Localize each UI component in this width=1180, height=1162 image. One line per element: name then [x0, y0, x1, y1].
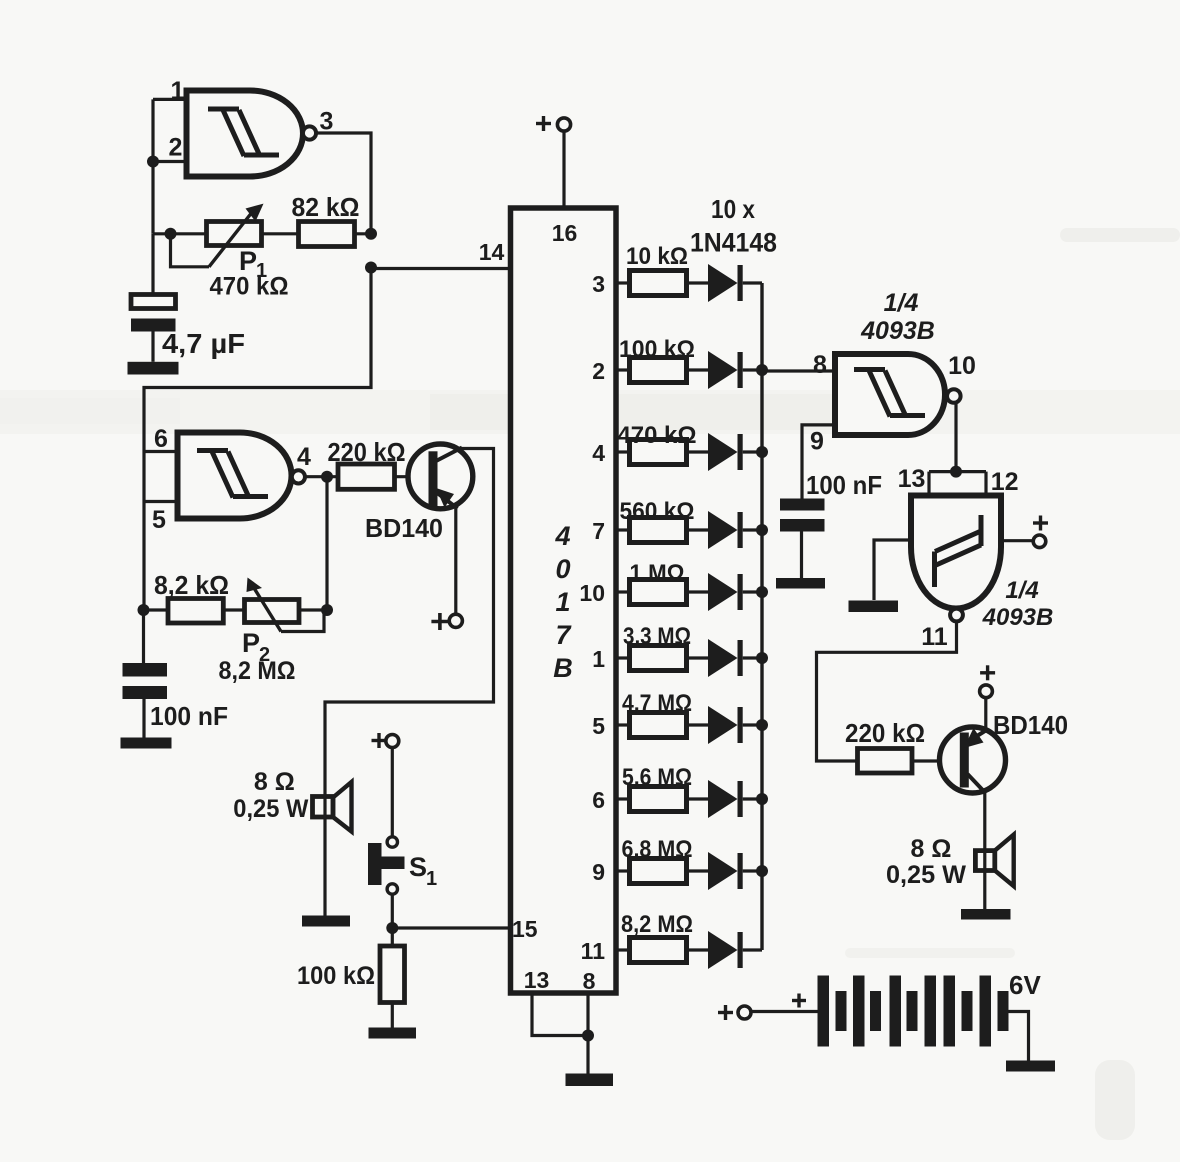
- wire diode-bus row 6: [743, 797, 762, 800]
- diode D3 1N4148: [708, 433, 743, 471]
- pin label 14: [479, 239, 505, 265]
- label + Q2: [980, 665, 995, 680]
- diode D9 1N4148: [708, 852, 743, 890]
- wire diode-bus row 9: [743, 869, 762, 872]
- label + Q1: [431, 613, 448, 630]
- svg-text:4093B: 4093B: [982, 604, 1054, 631]
- label 0,25 W right: [886, 861, 966, 889]
- diode D1 1N4148: [708, 264, 743, 302]
- wire IC pin 7 row: [616, 528, 630, 531]
- label 10 x: [711, 194, 755, 224]
- svg-text:5: 5: [592, 713, 605, 739]
- svg-text:13: 13: [524, 967, 550, 993]
- wire gate4 left input: [874, 540, 911, 600]
- capacitor C3 100nF plate1: [780, 499, 825, 511]
- label 470 k&#937;: [618, 422, 697, 449]
- Q2 base bar: [960, 733, 969, 788]
- wire Q2 collector to LS2: [983, 793, 986, 910]
- label 220 kΩ left: [328, 437, 406, 467]
- NAND gate U1A body: [187, 91, 303, 177]
- wire diode-bus row 10: [743, 590, 762, 593]
- svg-text:S: S: [409, 852, 427, 882]
- resistor row 3 10 k&#937; body: [630, 271, 687, 296]
- wire pin 1: [153, 98, 188, 101]
- svg-text:4: 4: [554, 521, 570, 551]
- wire pin4 node down: [325, 477, 328, 610]
- ground C1: [128, 362, 179, 375]
- label + battery: [792, 994, 806, 1008]
- svg-text:8,2 kΩ: 8,2 kΩ: [154, 570, 229, 600]
- svg-text:3: 3: [320, 108, 334, 136]
- wire P2 wiper: [281, 610, 324, 632]
- resistor row 9 6,8 M&#937; body: [630, 859, 687, 884]
- svg-text:8,2 MΩ: 8,2 MΩ: [621, 911, 693, 938]
- scan artifact band (ghost print): [0, 390, 1180, 434]
- pin label 10: [579, 580, 605, 606]
- capacitor C3 100nF plate2: [780, 519, 825, 532]
- capacitor C1 4,7uF plate-: [131, 319, 176, 332]
- terminal +V S1: [386, 735, 399, 748]
- scan smudge above battery: [845, 948, 1015, 958]
- pin label 12: [991, 468, 1019, 496]
- diode D10 1N4148: [708, 931, 743, 969]
- speaker LS2 horn: [995, 835, 1014, 887]
- wire resistor-diode row 9: [687, 869, 709, 872]
- wire LS1 to ground: [323, 797, 326, 917]
- wire P1 to R1: [262, 232, 300, 235]
- svg-text:15: 15: [512, 916, 538, 942]
- wire battery - to ground: [1009, 1012, 1029, 1061]
- wire IC pin 9 row: [616, 869, 630, 872]
- svg-text:5: 5: [152, 506, 166, 534]
- wire to IC pin 14: [371, 267, 510, 270]
- label 8 Ω right: [911, 835, 952, 863]
- svg-text:0: 0: [555, 554, 570, 584]
- svg-text:11: 11: [921, 623, 948, 651]
- wire IC pin 2 row: [616, 368, 630, 371]
- wire Q2 emitter to +V: [984, 698, 987, 730]
- wire U1C out to gate4: [954, 402, 957, 472]
- wire Q1 collector to net: [325, 449, 494, 797]
- svg-text:220 kΩ: 220 kΩ: [845, 718, 925, 748]
- svg-text:220 kΩ: 220 kΩ: [328, 437, 406, 467]
- node osc1 output: [365, 262, 377, 274]
- wire node to R2: [144, 608, 169, 611]
- Q2 emitter arrow: [964, 728, 984, 748]
- U1C output bubble: [947, 389, 961, 403]
- wire diode-bus row 2: [743, 368, 762, 371]
- U1B output bubble: [292, 470, 305, 483]
- svg-text:8,2 MΩ: 8,2 MΩ: [219, 657, 296, 685]
- node bus y452: [756, 446, 768, 458]
- wire R1 to node: [354, 232, 372, 235]
- label BD140 left: [365, 513, 443, 543]
- label 1N4148: [690, 228, 777, 258]
- svg-text:1/4: 1/4: [884, 289, 919, 317]
- pin label 10: [948, 352, 976, 380]
- svg-text:16: 16: [552, 220, 578, 246]
- wire gate4 right to +V: [1001, 539, 1033, 542]
- svg-text:B: B: [553, 653, 573, 683]
- scan smudge right edge: [1060, 228, 1180, 1140]
- pin label 6: [154, 425, 168, 453]
- wire P2 to node: [299, 608, 327, 611]
- pin label 5: [592, 713, 605, 739]
- Q1 base bar: [429, 451, 438, 506]
- wire IC pin 16: [562, 131, 565, 208]
- wire IC pin 6 row: [616, 797, 630, 800]
- svg-text:3,3 MΩ: 3,3 MΩ: [623, 623, 691, 650]
- svg-text:5,6 MΩ: 5,6 MΩ: [622, 764, 692, 791]
- wire diode-bus row 4: [743, 450, 762, 453]
- wire gate4 input tie: [929, 470, 986, 473]
- U1D schmitt symbol: [935, 515, 982, 587]
- svg-text:8 Ω: 8 Ω: [911, 835, 952, 863]
- svg-text:470 kΩ: 470 kΩ: [210, 273, 289, 301]
- label 8,2 kΩ: [154, 570, 229, 600]
- svg-text:8: 8: [813, 351, 827, 379]
- wire gate4 out to R5: [817, 621, 957, 761]
- svg-text:BD140: BD140: [365, 513, 443, 543]
- wire IC pin 3 row: [616, 281, 630, 284]
- wire resistor-diode row 6: [687, 797, 709, 800]
- switch S1 contact bottom: [387, 884, 397, 894]
- U1A schmitt symbol: [208, 109, 279, 156]
- svg-text:8: 8: [583, 968, 596, 994]
- node bus y799: [756, 793, 768, 805]
- node bus y530: [756, 524, 768, 536]
- NAND gate U1C body: [835, 354, 945, 435]
- wire pin 2: [153, 160, 188, 163]
- label P1: [239, 246, 267, 282]
- wire resistor-diode row 11: [687, 948, 709, 951]
- label P2: [242, 628, 270, 666]
- wire resistor-diode row 3: [687, 281, 709, 284]
- wire IC pin 1 row: [616, 656, 630, 659]
- label S1: [409, 852, 437, 890]
- wire IC pin 13: [532, 993, 588, 1036]
- capacitor C2 100nF plate1: [123, 663, 168, 677]
- terminal +V Q1: [449, 614, 462, 627]
- resistor row 11 8,2 M&#937; body: [630, 938, 687, 963]
- Q1 collector: [436, 448, 462, 462]
- wire battery +: [751, 1010, 818, 1013]
- pin label 11: [581, 938, 606, 964]
- svg-text:7: 7: [592, 518, 605, 544]
- wire P1 wiper: [171, 234, 210, 267]
- pin label 4: [297, 443, 311, 471]
- node bus y592: [756, 586, 768, 598]
- terminal +V IC: [557, 118, 570, 131]
- P1 wiper arrow: [209, 204, 264, 267]
- transistor Q2 BD140 circle: [940, 727, 1006, 793]
- node bus y871: [756, 865, 768, 877]
- label 100 kΩ bottom: [297, 962, 375, 990]
- wire U1B output pin 4: [305, 475, 338, 478]
- svg-text:4,7 MΩ: 4,7 MΩ: [622, 690, 692, 717]
- wire diode-bus row 5: [743, 723, 762, 726]
- pin label 3: [320, 108, 334, 136]
- wire diode-bus row 7: [743, 528, 762, 531]
- terminal +V Q2: [980, 685, 993, 698]
- svg-text:82 kΩ: 82 kΩ: [292, 192, 360, 222]
- wire IC pin 4 row: [616, 450, 630, 453]
- svg-text:2: 2: [169, 134, 183, 162]
- label 1/4 top: [884, 289, 919, 317]
- speaker LS1 box: [313, 797, 334, 818]
- diode D2 1N4148: [708, 351, 743, 389]
- U1A output bubble: [303, 126, 316, 139]
- node osc2 RC: [138, 604, 150, 616]
- label 8,2 MΩ: [219, 657, 296, 685]
- node P2 right: [321, 604, 333, 616]
- svg-text:100 nF: 100 nF: [806, 470, 882, 500]
- pin label 9: [810, 428, 824, 456]
- node gate4 input: [950, 466, 962, 478]
- svg-text:8 Ω: 8 Ω: [254, 768, 295, 796]
- IC name 4017B: [553, 521, 573, 683]
- Q1 emitter arrow: [436, 488, 454, 508]
- svg-text:7: 7: [555, 620, 572, 650]
- node IC ground: [582, 1030, 594, 1042]
- wire pin 9: [802, 425, 836, 499]
- resistor R2 8,2k body: [168, 599, 223, 624]
- wire IC pin 8: [586, 993, 589, 1074]
- speaker LS2 box: [975, 851, 994, 871]
- Q1 emitter: [436, 492, 458, 509]
- svg-text:1 MΩ: 1 MΩ: [630, 560, 685, 587]
- diode D4 1N4148: [708, 511, 743, 549]
- wire resistor-diode row 4: [687, 450, 709, 453]
- svg-text:0,25 W: 0,25 W: [233, 795, 308, 823]
- svg-text:1/4: 1/4: [1005, 577, 1038, 604]
- wire resistor-diode row 1: [687, 656, 709, 659]
- label 1/4 bottom: [1005, 577, 1038, 604]
- terminal + battery: [738, 1006, 751, 1019]
- svg-text:4: 4: [297, 443, 311, 471]
- resistor row 10 1 M&#937; body: [630, 580, 687, 605]
- diode D8 1N4148: [708, 780, 743, 818]
- svg-text:10: 10: [579, 580, 605, 606]
- capacitor C2 100nF plate2: [123, 686, 168, 699]
- wire bus to pin 8: [762, 369, 836, 372]
- svg-text:1: 1: [171, 77, 185, 105]
- label 100 nF left: [150, 701, 228, 731]
- svg-text:P: P: [242, 628, 260, 658]
- wire diode-bus row 3: [743, 281, 762, 284]
- wire pin 12 stub: [984, 472, 987, 496]
- wire LS2 to ground: [0, 0, 1, 1]
- svg-text:100 kΩ: 100 kΩ: [297, 962, 375, 990]
- wire S1 top: [391, 748, 394, 838]
- resistor row 4 470 k&#937; body: [630, 440, 687, 465]
- ground gate4 input: [849, 601, 899, 613]
- wire node to C1: [151, 234, 154, 295]
- ground R4: [369, 1028, 417, 1039]
- svg-text:100 nF: 100 nF: [150, 701, 228, 731]
- svg-text:6V: 6V: [1009, 970, 1041, 1000]
- node feedback top: [365, 228, 377, 240]
- svg-text:1: 1: [592, 646, 605, 672]
- svg-text:9: 9: [810, 428, 824, 456]
- wire feedback to gate2: [144, 268, 371, 611]
- label 82 kΩ: [292, 192, 360, 222]
- U1D output bubble: [950, 609, 963, 622]
- pin label 11: [921, 623, 948, 651]
- wire resistor-diode row 7: [687, 528, 709, 531]
- resistor row 2 100 k&#937; body: [630, 358, 687, 383]
- wire pin 13 stub: [927, 472, 930, 496]
- svg-text:4,7 µF: 4,7 µF: [162, 328, 245, 359]
- wire gate1 inputs tie (pins 1-2): [151, 99, 154, 233]
- svg-text:1: 1: [426, 868, 437, 890]
- wire to IC pin 15: [392, 926, 510, 929]
- svg-text:14: 14: [479, 239, 505, 265]
- pin label 1: [171, 77, 185, 105]
- pin label 3: [592, 271, 605, 297]
- Q2 emitter: [968, 730, 987, 742]
- svg-text:12: 12: [991, 468, 1019, 496]
- pin label 4: [592, 440, 605, 466]
- resistor R5 220k body: [858, 749, 913, 774]
- capacitor C1 4,7uF plate+: [131, 295, 176, 309]
- switch S1 actuator: [368, 843, 405, 885]
- svg-text:11: 11: [581, 938, 606, 964]
- pin label 13: [524, 967, 550, 993]
- wire R2 to P2: [223, 608, 244, 611]
- resistor row 5 4,7 M&#937; body: [630, 713, 687, 738]
- svg-text:9: 9: [592, 859, 605, 885]
- label + gate4: [1033, 516, 1048, 531]
- wire U1A output pin 3: [316, 133, 371, 234]
- diode D5 1N4148: [708, 573, 743, 611]
- ground LS2: [961, 909, 1011, 920]
- wire resistor-diode row 10: [687, 590, 709, 593]
- wire S1 bottom: [391, 894, 394, 946]
- wire R5 to Q2 base: [912, 759, 960, 762]
- svg-text:470 kΩ: 470 kΩ: [618, 422, 697, 449]
- pin label 8 bottom: [583, 968, 596, 994]
- resistor row 1 3,3 M&#937; body: [630, 646, 687, 671]
- node pin 2 junction: [147, 156, 159, 168]
- pin label 1: [592, 646, 605, 672]
- label 6,8 M&#937;: [622, 836, 693, 863]
- wire R3 to Q1 base: [395, 475, 431, 478]
- label 0,25 W left: [233, 795, 308, 823]
- label 8 Ω left: [254, 768, 295, 796]
- IC U2 4017B body: [511, 208, 617, 993]
- svg-text:10 kΩ: 10 kΩ: [626, 243, 688, 270]
- diode bus wire: [760, 283, 763, 950]
- svg-text:0,25 W: 0,25 W: [886, 861, 966, 889]
- svg-text:4093B: 4093B: [860, 317, 935, 345]
- wire resistor-diode row 5: [687, 723, 709, 726]
- label 10 k&#937;: [626, 243, 688, 270]
- ground LS1: [302, 916, 350, 927]
- wire C1 to ground: [151, 332, 154, 362]
- svg-text:1N4148: 1N4148: [690, 228, 777, 258]
- pin label 13 gate4: [898, 465, 926, 493]
- wire R4 to ground: [391, 1003, 394, 1028]
- potentiometer P1 body: [207, 222, 262, 246]
- P2 wiper arrow: [247, 578, 282, 632]
- wire node to P1: [153, 232, 207, 235]
- label + battery terminal: [718, 1005, 733, 1020]
- svg-text:4: 4: [592, 440, 605, 466]
- resistor R3 220k body: [338, 464, 395, 489]
- resistor row 7 560 k&#937; body: [630, 518, 687, 543]
- pin label 2: [169, 134, 183, 162]
- svg-text:3: 3: [592, 271, 605, 297]
- pin label 5: [152, 506, 166, 534]
- wire IC pin 5 row: [616, 723, 630, 726]
- NAND gate U1B body: [178, 433, 292, 519]
- svg-text:BD140: BD140: [993, 710, 1068, 740]
- node bus y725: [756, 719, 768, 731]
- diode D6 1N4148: [708, 639, 743, 677]
- wire diode-bus row 11: [743, 948, 762, 951]
- pin label 9: [592, 859, 605, 885]
- pin label 2: [592, 358, 605, 384]
- svg-text:6,8 MΩ: 6,8 MΩ: [622, 836, 693, 863]
- node pin 4: [321, 471, 333, 483]
- label 6V: [1009, 970, 1041, 1000]
- resistor R4 100k body: [380, 946, 405, 1003]
- pin label 8: [813, 351, 827, 379]
- switch S1 contact top: [387, 837, 397, 847]
- wire IC pin 10 row: [616, 590, 630, 593]
- pin label 16: [552, 220, 578, 246]
- label BD140 right: [993, 710, 1068, 740]
- svg-text:6: 6: [592, 787, 605, 813]
- ground IC: [566, 1074, 614, 1087]
- U1B schmitt symbol: [197, 451, 268, 498]
- node pin 15 net: [386, 922, 398, 934]
- ground battery: [1006, 1061, 1055, 1072]
- label 100 k&#937;: [619, 336, 695, 363]
- label 1 M&#937;: [630, 560, 685, 587]
- svg-text:560 kΩ: 560 kΩ: [620, 498, 695, 525]
- wire diode-bus row 1: [743, 656, 762, 659]
- pin label 7: [592, 518, 605, 544]
- U1C schmitt symbol: [854, 370, 925, 417]
- wire node to C2: [142, 610, 145, 663]
- label 4,7 M&#937;: [622, 690, 692, 717]
- label 3,3 M&#937;: [623, 623, 691, 650]
- label 560 k&#937;: [620, 498, 695, 525]
- wire IC pin 11 row: [616, 948, 630, 951]
- node bus y658: [756, 652, 768, 664]
- wire resistor-diode row 2: [687, 368, 709, 371]
- potentiometer P2 body: [245, 600, 300, 623]
- ground C3: [776, 578, 825, 589]
- svg-text:100 kΩ: 100 kΩ: [619, 336, 695, 363]
- ground C2: [121, 738, 172, 749]
- label 8,2 M&#937;: [621, 911, 693, 938]
- resistor row 6 5,6 M&#937; body: [630, 787, 687, 812]
- node osc1 RC: [165, 228, 177, 240]
- wire C3 to ground: [800, 532, 803, 579]
- label 470 kΩ: [210, 273, 289, 301]
- label 4093B bottom: [982, 604, 1054, 631]
- label 5,6 M&#937;: [622, 764, 692, 791]
- battery B1 6V cells: [818, 976, 1009, 1047]
- speaker LS1 horn: [333, 782, 352, 832]
- diode D7 1N4148: [708, 706, 743, 744]
- pin label 15: [512, 916, 538, 942]
- transistor Q1 BD140 circle: [408, 444, 473, 509]
- svg-text:2: 2: [592, 358, 605, 384]
